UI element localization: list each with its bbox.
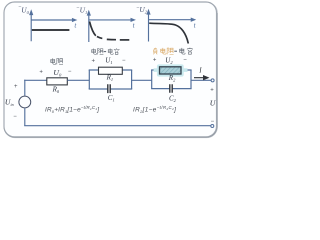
resistor R0	[47, 78, 68, 85]
axis vertical g1	[30, 11, 33, 41]
page background	[0, 0, 220, 142]
wire loop1 to loop2	[132, 79, 152, 81]
svg-text:−: −	[211, 119, 215, 125]
loop2 right vertical	[190, 70, 192, 89]
svg-text:+: +	[153, 58, 157, 64]
resistor R2 highlighted	[160, 67, 182, 74]
svg-text:−: −	[122, 58, 126, 64]
title 电阻	[51, 58, 63, 64]
svg-text:+: +	[39, 70, 43, 76]
title 负电阻-电容 (first 3 chars orange)	[153, 48, 173, 55]
svg-text:−: −	[183, 57, 187, 63]
source U_in circle	[19, 96, 31, 108]
wire loop2 to terminal	[191, 79, 211, 81]
resistor R1	[99, 67, 123, 74]
decay curve dash 2 g2	[107, 38, 116, 40]
svg-text:−: −	[13, 114, 17, 120]
axis horizontal g1	[31, 19, 76, 22]
loop1 top branch wires	[89, 69, 133, 71]
svg-text:+: +	[92, 58, 96, 64]
capacitor C1 plates	[108, 84, 110, 93]
rounded frame	[4, 2, 217, 137]
wire left vertical top	[24, 80, 26, 96]
wire top: source to R0	[24, 79, 47, 81]
loop1 right vertical	[131, 70, 133, 89]
loop2 left vertical	[151, 70, 153, 89]
axis horizontal g3	[149, 18, 195, 21]
axis horizontal g2	[89, 19, 135, 22]
axis vertical g3	[147, 10, 150, 41]
wire bottom	[24, 125, 211, 127]
loop2 bottom branch wires	[151, 88, 192, 90]
decay curve dash 1 g2	[97, 37, 102, 39]
capacitor C2 plates	[170, 84, 172, 93]
current arrow I	[194, 76, 208, 80]
loop1 left vertical	[88, 70, 90, 89]
terminal top	[211, 79, 214, 82]
terminal bottom	[211, 125, 214, 128]
svg-text:+: +	[14, 84, 18, 90]
curve g3	[149, 23, 188, 43]
svg-text:−: −	[68, 69, 72, 75]
title 电阻-电容	[92, 48, 120, 54]
rounded frame shadow	[5, 3, 218, 138]
decay curve dash 3 g2	[120, 39, 130, 41]
svg-text:+: +	[210, 88, 214, 94]
wire left vertical bottom	[24, 108, 26, 125]
signal line g1	[32, 29, 70, 31]
highlight halo around R2	[157, 64, 184, 76]
axis vertical g2	[88, 11, 91, 42]
decay curve solid part g2	[90, 22, 96, 36]
wire R0 to loop1	[67, 79, 89, 81]
loop1 bottom branch wires	[89, 88, 133, 90]
loop2 top branch wires	[151, 69, 192, 71]
